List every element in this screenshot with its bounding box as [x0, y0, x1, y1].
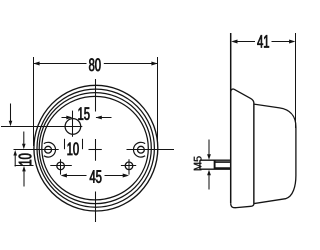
stud arrow down: [208, 140, 210, 155]
label 15: [78, 107, 89, 120]
lower-left hole crosshair: [50, 159, 72, 174]
stud arrow up: [207, 170, 211, 176]
stud hole lower-right: [125, 162, 133, 170]
stud hole lower-left: [57, 162, 65, 170]
center mark cross: [89, 149, 102, 151]
dim 45 arrow right: [123, 174, 129, 178]
M5 stud thread collar: [215, 162, 231, 168]
hole diameter extension tick right: [82, 139, 84, 149]
screw hole right: [138, 146, 145, 153]
dim 45 line: [67, 175, 124, 177]
left up arrow to center line: [13, 150, 17, 156]
lower-right hole crosshair: [121, 159, 136, 174]
horizontal center line left: [14, 149, 59, 151]
dim 80 arrow right: [151, 62, 157, 66]
M5 stud outline: [200, 160, 231, 169]
dim 10 upper arrow down to center line: [23, 132, 25, 145]
dim 41 line: [233, 41, 294, 43]
screw boss ring right: [133, 142, 145, 157]
screw boss ring left: [44, 142, 56, 157]
screw hole left: [45, 146, 52, 153]
label 80: [89, 58, 100, 71]
hole diameter extension tick left: [64, 139, 66, 149]
line C extended left: [15, 165, 34, 167]
dim 15 arrow left: [66, 116, 72, 120]
label 45: [90, 170, 102, 183]
lamp bezel ring 3: [39, 93, 151, 204]
dim 45 arrow left: [61, 174, 67, 178]
label 10 rotated: [19, 154, 32, 165]
label 10 hole diameter: [68, 142, 79, 155]
dim 80 line: [34, 63, 158, 65]
offset arrow down to hole center line: [10, 104, 12, 122]
cable hole vertical center line: [72, 111, 74, 137]
dim 80 extension line right: [157, 57, 159, 146]
dim 80 arrow left: [33, 62, 39, 66]
lamp bezel ring 4: [42, 96, 149, 200]
label 41: [257, 35, 269, 47]
label M5 rotated: [194, 156, 202, 170]
cable hole: [65, 119, 81, 135]
cable hole horizontal center line: [1, 126, 82, 128]
side view rubber body outline: [231, 89, 254, 208]
vertical center line: [95, 79, 97, 222]
lamp outer rim circle: [34, 85, 158, 211]
lamp bezel ring 2: [37, 89, 154, 207]
dim 80 extension line left: [33, 57, 35, 146]
dim 41 arrow right: [289, 40, 295, 44]
dim 41 arrow left: [231, 40, 237, 44]
dim 10 lower arrow up to line C: [22, 166, 26, 172]
dim 15 line: [62, 117, 112, 119]
side view base/lens junction line: [253, 103, 255, 203]
side view lens outline: [254, 104, 296, 204]
dim 15 arrow right: [96, 116, 102, 120]
dim 41 extension right: [295, 33, 297, 128]
side view mounting face / extension line: [230, 33, 232, 203]
horizontal center line right: [127, 149, 175, 151]
